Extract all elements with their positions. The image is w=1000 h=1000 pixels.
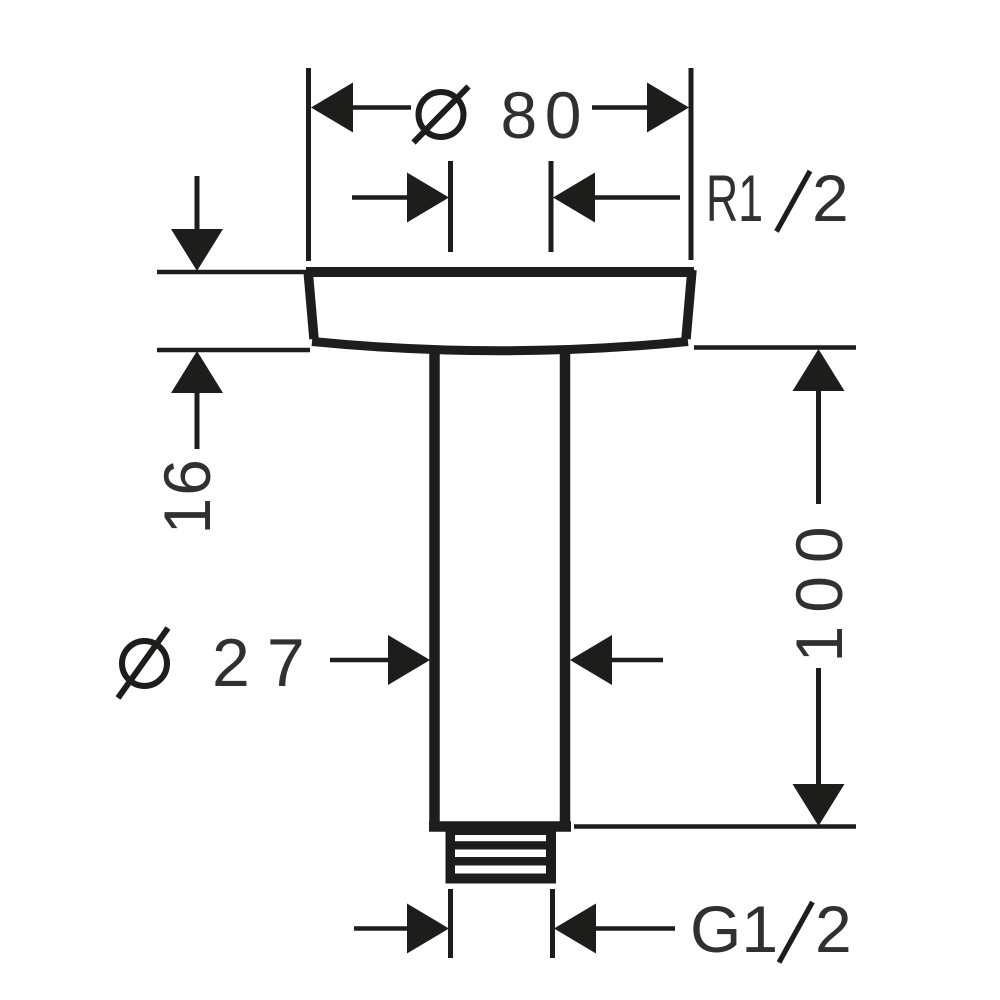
svg-text:R1: R1 (706, 161, 763, 235)
svg-text:2: 2 (815, 892, 852, 966)
svg-text:16: 16 (150, 457, 224, 534)
G1/2 left arrow tail (354, 926, 408, 931)
extension line right G1/2 (550, 889, 555, 958)
extension line right R1/2 (549, 161, 554, 252)
R1/2 right arrowhead (553, 173, 595, 223)
Ø27 right arrowhead (570, 635, 612, 685)
16 top arrowhead pointing down (171, 229, 223, 271)
diameter symbol of Ø27 (118, 628, 168, 698)
extension line left G1/2 (448, 889, 453, 958)
100 bottom arrowhead pointing down (793, 784, 845, 826)
flange top edge (306, 267, 694, 277)
flange left edge (308, 270, 314, 339)
pipe bottom reference line right (574, 824, 856, 829)
extension line left of Ø80 (306, 68, 311, 261)
Ø27 left arrow tail (330, 658, 390, 663)
Ø27 left arrowhead (388, 635, 430, 685)
16 dimension bottom arrow line (195, 392, 200, 449)
100 top arrowhead pointing up (793, 349, 845, 391)
arrowhead Ø80 left (311, 83, 353, 133)
G1/2 left arrowhead (407, 904, 449, 954)
pipe left wall (429, 350, 440, 826)
svg-text:2: 2 (812, 161, 849, 235)
svg-text:80: 80 (501, 78, 589, 152)
100 dimension lower line (816, 668, 821, 785)
svg-text:27: 27 (212, 625, 322, 701)
thread white stripe 1 (455, 835, 546, 841)
extension line right of Ø80 (689, 68, 694, 260)
G1/2 right arrowhead (554, 904, 596, 954)
G1/2 right arrow tail (596, 926, 675, 931)
diameter symbol of Ø80 (414, 87, 469, 143)
svg-text:100: 100 (782, 513, 856, 662)
arrowhead Ø80 right (647, 83, 689, 133)
R1/2 left arrow tail (352, 195, 408, 200)
pipe right wall (560, 350, 571, 826)
pipe bottom edge (429, 821, 571, 832)
ceiling reference line lower left (157, 348, 310, 353)
dimension line Ø80 right stub (592, 105, 649, 110)
extension line left R1/2 (448, 161, 453, 252)
flange right edge (686, 270, 692, 339)
thread white stripe 3 (455, 866, 546, 874)
R1/2 left arrowhead (407, 173, 449, 223)
ceiling reference line upper left (157, 270, 306, 275)
16 bottom arrowhead pointing up (171, 351, 223, 393)
thread block G1/2 (446, 831, 557, 884)
svg-text:G1: G1 (690, 892, 778, 966)
thread white stripe 2 (455, 850, 546, 858)
Ø27 right arrow tail (611, 658, 663, 663)
ceiling reference line right (694, 345, 856, 350)
flange bottom curved edge (312, 342, 688, 351)
dimension line Ø80 left stub (352, 105, 411, 110)
R1/2 right arrow tail (595, 195, 680, 200)
100 dimension upper line (816, 390, 821, 504)
16 dimension top arrow line (195, 176, 200, 231)
